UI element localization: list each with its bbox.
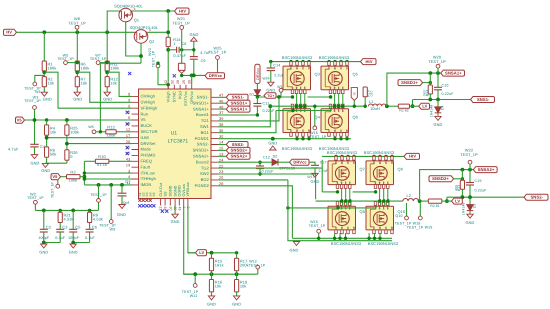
test point W15	[314, 106, 316, 126]
junction phase1 top rail x309	[307, 60, 310, 63]
test point W23	[157, 62, 159, 65]
svg-text:3: 3	[128, 169, 130, 173]
wire PGND1 row	[218, 138, 351, 140]
op-amp U1 LTC3871 body	[139, 89, 212, 199]
svg-text:TEST_1P: TEST_1P	[428, 59, 446, 64]
net flag TG+	[264, 93, 276, 99]
svg-text:LV: LV	[199, 250, 204, 255]
svg-text:81: 81	[436, 204, 440, 208]
svg-text:W3: W3	[33, 96, 39, 100]
wire gate line to left network	[100, 62, 141, 64]
svg-text:SNSA2+: SNSA2+	[193, 154, 210, 159]
wire SW1 phase rail	[270, 105, 366, 107]
wire BG1 gate line	[276, 110, 332, 112]
test point W7	[96, 61, 100, 65]
svg-text:GND: GND	[434, 122, 443, 127]
svg-text:W11: W11	[190, 294, 198, 298]
junction BG2 riser	[286, 206, 289, 209]
wire SW2 phase rail	[316, 200, 403, 202]
ground GND C2C3	[41, 244, 47, 248]
svg-text:R2: R2	[399, 109, 404, 113]
svg-text:Q2: Q2	[149, 39, 154, 44]
svg-text:0.1uF: 0.1uF	[85, 236, 96, 240]
junction HtV trunk at C8 tap	[166, 48, 170, 52]
svg-text:HtV: HtV	[179, 8, 186, 13]
wire feedback mid row	[184, 273, 258, 275]
svg-text:5: 5	[128, 104, 130, 108]
svg-text:6: 6	[128, 116, 130, 120]
svg-text:SECTUR: SECTUR	[141, 129, 158, 134]
junction PGND2 rail x374.5	[373, 237, 376, 240]
junction PGND1 rail x335	[333, 137, 336, 140]
junction TG1 riser	[277, 95, 281, 99]
svg-text:L1: L1	[369, 99, 374, 104]
ground GND R7	[74, 92, 80, 96]
junction PGND2 W16	[317, 237, 320, 240]
resistor R13 100k	[106, 130, 116, 134]
transistor Q8 BSC190N15NS3 module	[328, 206, 356, 230]
wire Q1 source feed	[107, 11, 119, 32]
erc mark left wire bundle	[128, 72, 131, 75]
net flag SNSD1+ right	[398, 80, 423, 86]
junction DRVcc line at DRVcc pin	[190, 74, 194, 78]
wire divider column R6	[76, 32, 78, 61]
svg-text:SNSD1+: SNSD1+	[401, 80, 418, 85]
wire PGND2 pad stubs	[335, 233, 380, 238]
svg-text:FREQ: FREQ	[141, 159, 153, 164]
svg-text:LV: LV	[422, 103, 427, 108]
capacitor C2 100pF	[43, 210, 45, 229]
capacitor C7 10pF	[121, 185, 123, 193]
ground GND C7	[119, 205, 125, 209]
resistor R19	[363, 87, 367, 97]
inductor L2 10uH	[403, 198, 419, 201]
junction LV row R15	[210, 251, 214, 255]
svg-text:BSC190N15NS3: BSC190N15NS3	[327, 150, 357, 155]
junction SW1 rail x334.6	[333, 105, 336, 108]
svg-text:GND: GND	[311, 179, 320, 184]
test point W10	[97, 199, 101, 203]
svg-text:51.1k: 51.1k	[97, 162, 107, 167]
junction phase1 top rail x329	[327, 60, 330, 63]
junction Boost1 C11	[256, 113, 259, 116]
svg-text:SGND: SGND	[169, 185, 173, 196]
svg-text:SNSA1+: SNSA1+	[445, 70, 462, 75]
junction mid row R17	[235, 272, 239, 276]
svg-text:2: 2	[134, 31, 136, 35]
svg-text:W24: W24	[262, 76, 269, 80]
wire TG2 gate line	[322, 191, 337, 193]
svg-text:PGND2: PGND2	[195, 183, 210, 188]
junction phase2 top rail x374	[372, 155, 375, 158]
resistor R23 499	[461, 170, 463, 181]
svg-text:Q7: Q7	[360, 166, 365, 171]
svg-text:4: 4	[128, 175, 130, 179]
svg-text:TEST_1P: TEST_1P	[90, 57, 107, 61]
svg-text:12: 12	[126, 128, 130, 132]
svg-text:LV: LV	[455, 198, 460, 203]
svg-text:SNS1-: SNS1-	[477, 97, 490, 102]
svg-text:0.22uF: 0.22uF	[442, 92, 455, 96]
svg-text:PGd: PGd	[177, 91, 182, 99]
wire SNS1- to LV divider	[412, 100, 414, 107]
transistor Q9 BSC190N15NS3 module	[366, 161, 394, 185]
wire BG1 row	[218, 111, 276, 133]
inductor L1 10uH	[369, 104, 387, 106]
junction SW1 flag	[353, 105, 356, 108]
svg-text:3: 3	[149, 28, 151, 32]
svg-text:0.22uF: 0.22uF	[263, 109, 276, 113]
wire W10 riser	[98, 185, 100, 199]
resistor R25 100k	[66, 120, 68, 125]
junction ITH node	[83, 175, 87, 179]
wire HV input rail	[17, 31, 135, 33]
resistor R26	[65, 150, 69, 160]
resistor R15 191k	[211, 253, 213, 258]
wire Boost1 row	[218, 114, 257, 116]
svg-text:IMON: IMON	[141, 182, 152, 187]
wire divider column R1	[43, 32, 45, 61]
junction PGND1 at GND	[271, 137, 275, 141]
junction V5 rail R25	[65, 118, 69, 122]
svg-text:49: 49	[177, 207, 181, 211]
erc marks U1 left pins	[126, 111, 129, 114]
junction R22 LV	[445, 199, 449, 203]
junction HV rail at R11/Q1 column	[105, 30, 109, 34]
capacitor C14 2.2uF	[267, 67, 276, 69]
wire L2 to R22	[419, 200, 429, 202]
svg-text:100k: 100k	[107, 132, 116, 137]
svg-text:100pF: 100pF	[38, 236, 50, 240]
junction TG2 gate Q7	[336, 190, 339, 193]
svg-text:10k: 10k	[81, 81, 88, 86]
junction Q1 drain node	[166, 9, 170, 13]
svg-text:020: 020	[369, 91, 373, 97]
svg-text:1N4148: 1N4148	[429, 105, 433, 118]
svg-text:Q8: Q8	[360, 209, 365, 214]
junction R19	[364, 105, 367, 108]
erc red marks U1 bottom unconnected pins	[138, 199, 141, 202]
svg-text:SNSA2+: SNSA2+	[478, 167, 495, 172]
svg-text:Q4: Q4	[315, 114, 321, 119]
svg-text:SNSD2+: SNSD2+	[231, 148, 248, 153]
net flag LV bottom	[196, 250, 207, 256]
svg-text:100k: 100k	[69, 177, 78, 182]
transistor Q4 BSC190N15NS3 module	[283, 109, 311, 133]
svg-text:R2: R2	[430, 204, 435, 208]
net flag LV phase1	[419, 103, 430, 109]
svg-text:R13: R13	[107, 125, 114, 130]
junction SW1 rail x338.7	[337, 105, 340, 108]
ground GND R12	[104, 92, 110, 96]
junction ITHLow	[83, 171, 86, 174]
capacitor C5 100pF	[72, 210, 74, 229]
junction IMON at C7	[120, 183, 124, 187]
svg-text:29: 29	[182, 80, 186, 84]
wire TG1 gate line	[257, 96, 292, 98]
erc blue marks U1 bottom row1	[138, 204, 141, 207]
svg-text:SYNC: SYNC	[172, 91, 177, 102]
ground GND C14	[268, 82, 274, 86]
svg-text:W23: W23	[148, 48, 152, 56]
junction SW2 rail x345.7	[344, 199, 347, 202]
capacitor C10 0.22uF	[437, 73, 439, 87]
wire Boost2 row	[218, 161, 256, 163]
svg-text:0.1uF: 0.1uF	[55, 236, 66, 240]
svg-text:4.53k: 4.53k	[64, 216, 74, 221]
svg-text:ITHHigh: ITHHigh	[141, 176, 156, 181]
junction SNS1- C10	[436, 98, 440, 102]
junction gate line at W23	[156, 62, 159, 65]
svg-text:Q5: Q5	[353, 72, 358, 77]
wire ITHLow row	[84, 172, 131, 174]
svg-text:Q1: Q1	[134, 18, 139, 23]
svg-text:SQD40P10-40L: SQD40P10-40L	[129, 25, 158, 30]
svg-text:R23: R23	[457, 185, 461, 192]
supply flag V5 lower	[51, 174, 61, 180]
wire UVHigh from R6 divider	[77, 72, 131, 102]
wire LV top row	[188, 252, 196, 254]
wire L1 to R20	[386, 105, 398, 107]
wire SW1 row	[218, 106, 270, 127]
junction filter rail R9	[88, 209, 91, 212]
svg-text:2: 2	[119, 10, 121, 14]
svg-text:VFBLow: VFBLow	[186, 182, 190, 197]
svg-text:SNS2-: SNS2-	[232, 142, 245, 147]
svg-text:43: 43	[126, 158, 130, 162]
junction SNSD2+ link	[461, 177, 464, 180]
test point W22	[468, 160, 472, 164]
svg-text:HV: HV	[6, 30, 12, 35]
resistor R1 190k	[42, 61, 46, 71]
svg-text:DRVcc: DRVcc	[189, 91, 194, 104]
svg-text:GND: GND	[232, 302, 241, 307]
ground GND U1 SGND	[174, 206, 176, 215]
supply flag HtV top	[175, 8, 190, 14]
svg-text:R10: R10	[98, 154, 106, 159]
svg-text:BSC190N15NS3: BSC190N15NS3	[282, 146, 312, 151]
ground GND R8	[42, 163, 48, 167]
svg-text:SW1: SW1	[200, 124, 210, 129]
svg-text:C19: C19	[475, 179, 482, 183]
junction ILIM row	[45, 136, 49, 140]
junction SW2 rail x383.7	[382, 199, 385, 202]
wire ITH node vertical	[83, 161, 85, 185]
ground GND D4	[435, 116, 441, 120]
svg-text:Q9: Q9	[398, 166, 403, 171]
junction PGND1 rail x303	[301, 137, 304, 140]
svg-text:PGND1: PGND1	[195, 136, 210, 141]
junction C9 top	[192, 48, 195, 51]
svg-text:100pF: 100pF	[68, 236, 80, 240]
junction mid row R15	[210, 272, 214, 276]
resistor R22	[428, 199, 442, 203]
wire C2 C3 ground link	[44, 242, 60, 244]
svg-text:L2: L2	[407, 193, 412, 198]
svg-text:GND: GND	[190, 32, 199, 37]
svg-text:D2: D2	[273, 154, 278, 158]
net flag SNSA2+	[218, 155, 226, 157]
wire DRVcc to C17	[309, 162, 315, 165]
junction SW1 rail x342.8	[341, 105, 344, 108]
svg-text:10uH: 10uH	[370, 106, 380, 111]
supply flag DRVcc top	[205, 73, 225, 79]
wire PGND2 rail	[292, 237, 392, 239]
junction divider R6 mid	[75, 70, 79, 74]
capacitor C11 0.22uF	[256, 97, 258, 104]
junction DRVcc line at zener	[180, 74, 183, 77]
svg-text:SNSA1+: SNSA1+	[193, 106, 210, 111]
svg-text:100k: 100k	[70, 129, 79, 134]
wire R8 R26 ground link	[46, 157, 48, 163]
wire SNS2- line	[447, 196, 524, 198]
wire SNS2- to LV riser	[446, 197, 448, 201]
wire Q1 drain to HtV flag	[133, 10, 175, 12]
svg-text:SNS1-: SNS1-	[197, 95, 210, 100]
capacitor C17 2.2uF	[311, 164, 319, 166]
wire SNSD2+ link	[454, 178, 463, 180]
junction PGND1 rail x347	[345, 137, 348, 140]
svg-text:TEST_1P: TEST_1P	[460, 152, 478, 157]
supply flag V5	[16, 117, 25, 123]
svg-text:BSC190N15NS3: BSC190N15NS3	[331, 241, 361, 246]
junction SW1 rail x296.6	[295, 105, 298, 108]
wire phase2 HV top rail	[322, 155, 404, 157]
svg-text:Q10: Q10	[395, 214, 402, 218]
wire OVLow riser to feedback divider	[184, 206, 196, 275]
svg-text:TG+: TG+	[267, 94, 274, 98]
svg-text:10k: 10k	[48, 81, 55, 86]
junction phase1 top rail x341	[339, 60, 342, 63]
test point W9	[109, 220, 113, 224]
resistor R21 4.53k	[59, 210, 61, 212]
junction SNS2- C19	[468, 195, 472, 199]
test point W3	[33, 106, 37, 110]
svg-text:2.2uF: 2.2uF	[319, 169, 330, 173]
svg-text:9: 9	[128, 99, 130, 103]
net flag SNS2-	[218, 144, 226, 146]
svg-text:R3: R3	[70, 170, 75, 175]
transistor Q10 BSC190N15NS3 module	[366, 206, 394, 230]
svg-text:10k: 10k	[110, 81, 117, 86]
net flag SNSA2+ right	[473, 167, 497, 173]
svg-text:1N4148: 1N4148	[461, 203, 465, 216]
diode D1	[256, 84, 258, 90]
junction phase2 top rail x386	[384, 155, 387, 158]
svg-text:LTC3871: LTC3871	[168, 139, 189, 145]
svg-text:0.22uF: 0.22uF	[475, 188, 488, 192]
junction filter rail C2	[42, 209, 46, 213]
capacitor C12 0.22uF	[259, 162, 261, 166]
ground GND PGND2	[293, 242, 299, 246]
net flag SNS2- right	[524, 194, 548, 200]
junction phase1 top rail x291	[289, 60, 292, 63]
ground GND D5	[467, 214, 473, 218]
svg-text:GND: GND	[290, 248, 299, 253]
net flag SNSD1+	[218, 102, 226, 104]
svg-text:SNSA2+: SNSA2+	[231, 154, 248, 159]
junction C2 gnd	[42, 241, 46, 245]
svg-text:SS: SS	[163, 191, 167, 197]
svg-text:TEST_1P: TEST_1P	[209, 50, 227, 55]
junction C5 gnd	[71, 241, 75, 245]
svg-text:ITHLow: ITHLow	[141, 170, 155, 175]
wire TG2 row	[218, 160, 322, 168]
svg-text:CLKOut: CLKOut	[159, 183, 163, 197]
transistor Q1 SQD40P10-40L	[119, 8, 133, 22]
wire ITHHigh row	[84, 178, 131, 180]
svg-text:30: 30	[188, 80, 192, 84]
svg-text:190k: 190k	[81, 65, 90, 70]
svg-text:BSC190N15NS3: BSC190N15NS3	[282, 55, 312, 60]
svg-text:BUCK: BUCK	[141, 123, 153, 128]
svg-text:200k: 200k	[240, 262, 249, 267]
junction HV rail at R6 column	[75, 30, 79, 34]
wire ILIM row	[46, 135, 48, 147]
svg-text:TEST_1P: TEST_1P	[407, 226, 424, 230]
junction L2 output	[418, 199, 422, 203]
test point W6	[92, 130, 96, 134]
junction SW1 at rail	[268, 104, 272, 108]
junction SW1 rail x300.7	[299, 105, 302, 108]
ground GND C17	[312, 173, 318, 177]
svg-text:42: 42	[164, 80, 168, 84]
capacitor C8 0.47uF	[177, 47, 180, 53]
svg-text:190k: 190k	[110, 65, 119, 70]
wire SNSD1+ link	[423, 82, 431, 84]
svg-text:D1: D1	[250, 92, 255, 96]
svg-text:3: 3	[134, 7, 136, 11]
svg-text:BG2: BG2	[201, 177, 210, 182]
junction C12 top	[258, 161, 261, 164]
resistor R9 4.53k	[89, 210, 91, 212]
junction SW2 rail x387.8	[386, 199, 389, 202]
resistor R20	[398, 104, 409, 108]
junction VHigh pin entry	[167, 83, 170, 86]
capacitor C19 0.22uF	[469, 170, 471, 183]
resistor R6 190k	[75, 61, 79, 71]
svg-text:GND: GND	[117, 212, 126, 217]
junction IMON at W9 riser	[109, 183, 113, 187]
svg-text:8: 8	[128, 93, 130, 97]
junction BG2 gate Q8	[336, 206, 339, 209]
svg-text:V5: V5	[141, 117, 147, 122]
junction DRVSet row	[65, 142, 69, 146]
svg-text:C17: C17	[320, 161, 327, 165]
capacitor C4 4.7uF	[34, 120, 36, 144]
net flag SNS1-	[218, 96, 226, 98]
wire TG2 riser	[321, 168, 323, 192]
svg-text:BSC190N15NS3: BSC190N15NS3	[364, 150, 394, 155]
junction phase1 top rail x297	[295, 60, 298, 63]
svg-text:GND: GND	[466, 220, 475, 225]
junction W15	[313, 105, 316, 108]
junction TG1 gate Q5	[329, 95, 332, 98]
transistor Q7 BSC190N15NS3 module	[328, 161, 356, 185]
transistor Q2 SQD40P10-40L	[134, 30, 148, 44]
svg-text:W19: W19	[425, 226, 433, 230]
svg-text:HtV: HtV	[409, 154, 416, 159]
svg-text:BSC190N15NS3: BSC190N15NS3	[319, 55, 349, 60]
junction phase2 top rail x342	[340, 155, 343, 158]
junction SW1 rail x304.8	[303, 105, 306, 108]
junction V5 rail W3	[33, 118, 37, 122]
wire SECTUR row with R13	[99, 63, 101, 132]
svg-text:GND: GND	[171, 219, 180, 224]
svg-text:C11: C11	[263, 102, 270, 106]
wire SW2 pad stubs upper	[342, 188, 388, 201]
erc blue marks U1 bottom row2	[161, 210, 164, 213]
